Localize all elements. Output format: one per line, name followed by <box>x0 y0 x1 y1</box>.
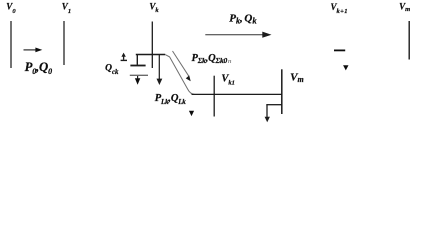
svg-text:P0,Q0: P0,Q0 <box>25 60 52 76</box>
